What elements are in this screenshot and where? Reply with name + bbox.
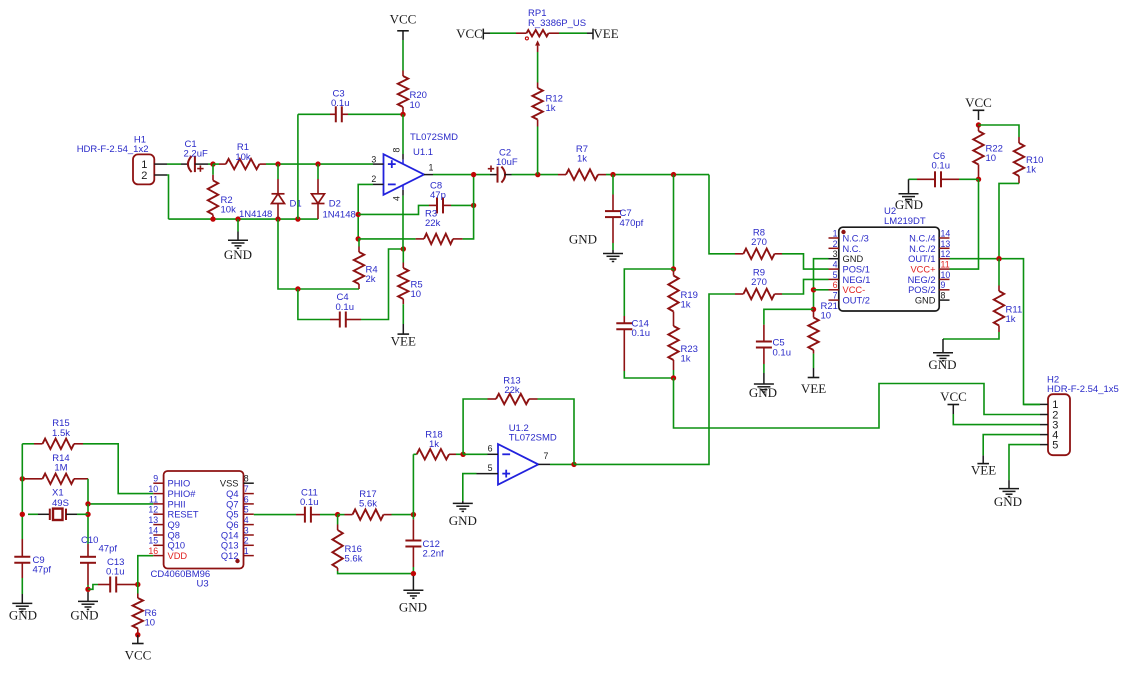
svg-text:0.1u: 0.1u xyxy=(331,98,350,109)
svg-text:11: 11 xyxy=(149,494,158,504)
junction xyxy=(295,286,300,291)
svg-text:5.6k: 5.6k xyxy=(359,499,377,510)
svg-text:N.C./4: N.C./4 xyxy=(909,233,935,243)
ground xyxy=(749,373,777,400)
svg-text:VSS: VSS xyxy=(220,479,239,489)
resistor R12 xyxy=(532,52,563,175)
svg-text:0.1u: 0.1u xyxy=(336,302,355,313)
wire xyxy=(167,163,181,165)
junction xyxy=(85,512,90,517)
svg-text:N.C.: N.C. xyxy=(843,244,862,254)
wire xyxy=(953,414,1040,425)
junction xyxy=(571,462,576,467)
wire xyxy=(673,175,675,269)
crystal X1 xyxy=(28,488,88,521)
resistor R11 xyxy=(943,259,1022,339)
svg-text:10k: 10k xyxy=(235,152,251,163)
svg-text:Q13: Q13 xyxy=(221,541,239,551)
svg-text:49S: 49S xyxy=(52,498,69,509)
svg-text:2: 2 xyxy=(141,170,147,182)
diode D2 xyxy=(312,164,356,220)
power VEE xyxy=(587,26,619,41)
svg-text:GND: GND xyxy=(994,494,1022,509)
svg-text:8: 8 xyxy=(941,291,946,301)
svg-text:9: 9 xyxy=(941,280,946,290)
svg-text:1N4148: 1N4148 xyxy=(239,209,272,220)
svg-text:OUT/1: OUT/1 xyxy=(908,254,935,264)
svg-text:VEE: VEE xyxy=(801,381,826,396)
svg-text:1N4148: 1N4148 xyxy=(323,210,356,221)
svg-text:6: 6 xyxy=(488,443,493,453)
svg-text:1k: 1k xyxy=(577,154,587,165)
capacitor C3 xyxy=(298,89,403,123)
junction xyxy=(135,582,140,587)
svg-text:POS/2: POS/2 xyxy=(908,285,935,295)
junction xyxy=(976,122,981,127)
capacitor C7 xyxy=(605,175,621,250)
svg-text:GND: GND xyxy=(569,232,597,247)
svg-text:47pf: 47pf xyxy=(99,544,118,555)
svg-text:GND: GND xyxy=(843,254,864,264)
resistor R17 xyxy=(338,489,414,520)
junction xyxy=(315,161,320,166)
resistor R10 xyxy=(979,125,1044,259)
wire xyxy=(983,435,1040,456)
svg-text:4: 4 xyxy=(392,196,402,201)
wire xyxy=(574,294,735,464)
resistor R2 xyxy=(208,164,236,219)
svg-text:Q14: Q14 xyxy=(221,530,239,540)
svg-text:GND: GND xyxy=(895,197,923,212)
svg-text:PHII: PHII xyxy=(168,499,186,509)
power VCC xyxy=(940,389,967,414)
wire xyxy=(358,184,373,239)
svg-text:Q7: Q7 xyxy=(226,499,238,509)
junction xyxy=(135,632,140,637)
svg-text:2.2uF: 2.2uF xyxy=(184,149,208,160)
svg-text:U1.1: U1.1 xyxy=(413,147,433,158)
power VCC xyxy=(965,95,992,120)
junction xyxy=(295,216,300,221)
svg-text:GND: GND xyxy=(449,513,477,528)
svg-text:Q8: Q8 xyxy=(168,530,180,540)
svg-text:0.1u: 0.1u xyxy=(106,567,125,578)
svg-text:1k: 1k xyxy=(681,299,691,310)
svg-text:2: 2 xyxy=(833,239,838,249)
svg-text:2k: 2k xyxy=(366,274,376,285)
svg-text:7: 7 xyxy=(833,291,838,301)
svg-text:OUT/2: OUT/2 xyxy=(843,296,870,306)
svg-text:16: 16 xyxy=(148,546,158,556)
capacitor C8 xyxy=(429,180,474,213)
capacitor C10 xyxy=(80,535,117,590)
ground xyxy=(70,592,98,622)
resistor R5 xyxy=(398,249,423,304)
svg-text:4: 4 xyxy=(833,259,838,269)
junction xyxy=(460,452,465,457)
junction xyxy=(275,161,280,166)
svg-text:TL072SMD: TL072SMD xyxy=(509,433,557,444)
svg-text:0.1u: 0.1u xyxy=(932,161,951,172)
ground xyxy=(994,480,1022,509)
svg-text:GND: GND xyxy=(224,247,252,262)
capacitor C9 xyxy=(14,539,51,594)
svg-text:8: 8 xyxy=(392,147,402,152)
svg-text:13: 13 xyxy=(941,239,951,249)
svg-text:GND: GND xyxy=(399,600,427,615)
junction xyxy=(210,216,215,221)
svg-text:6: 6 xyxy=(833,280,838,290)
svg-text:1: 1 xyxy=(244,546,249,556)
wire xyxy=(402,196,404,249)
wire xyxy=(266,163,373,165)
svg-text:2: 2 xyxy=(244,536,249,546)
junction xyxy=(671,172,676,177)
wire xyxy=(550,463,574,465)
svg-text:VCC: VCC xyxy=(456,26,483,41)
svg-text:4: 4 xyxy=(244,515,249,525)
svg-text:VCC: VCC xyxy=(390,12,417,27)
resistor R7 xyxy=(558,144,606,180)
power VEE xyxy=(391,304,416,348)
wire xyxy=(1009,445,1040,481)
junction xyxy=(610,172,615,177)
ground xyxy=(449,501,477,528)
junction xyxy=(356,236,361,241)
resistor R19 xyxy=(668,269,698,312)
svg-text:1k: 1k xyxy=(429,439,439,450)
resistor R3 xyxy=(358,175,473,245)
capacitor C5 xyxy=(756,309,814,373)
ground xyxy=(895,179,923,212)
svg-text:10: 10 xyxy=(145,617,156,628)
svg-text:2: 2 xyxy=(371,174,376,184)
capacitor C2 xyxy=(488,147,518,182)
svg-text:0.1u: 0.1u xyxy=(300,497,319,508)
svg-text:10: 10 xyxy=(941,270,951,280)
comparator U2 xyxy=(829,206,951,311)
svg-text:VCC+: VCC+ xyxy=(910,264,935,274)
svg-text:5.6k: 5.6k xyxy=(345,553,363,564)
wire xyxy=(358,205,429,214)
svg-text:14: 14 xyxy=(941,228,951,238)
wire xyxy=(674,378,1041,428)
svg-text:D1: D1 xyxy=(290,199,302,210)
svg-text:GND: GND xyxy=(70,607,98,622)
power VEE xyxy=(801,368,826,396)
svg-text:Q4: Q4 xyxy=(226,489,238,499)
svg-text:270: 270 xyxy=(751,237,767,248)
connector H1 xyxy=(77,134,167,184)
wire xyxy=(814,259,829,310)
wire xyxy=(278,219,359,289)
svg-text:5: 5 xyxy=(833,270,838,280)
capacitor C11 xyxy=(296,487,338,522)
wire xyxy=(1024,403,1041,405)
connector H2 xyxy=(1040,374,1119,455)
svg-text:HDR-F-2.54_1x2: HDR-F-2.54_1x2 xyxy=(77,144,149,155)
wire xyxy=(169,218,319,220)
wire xyxy=(950,179,979,269)
resistor R8 xyxy=(735,227,782,259)
svg-text:N.C./2: N.C./2 xyxy=(909,244,935,254)
capacitor C6 xyxy=(909,151,979,187)
resistor R9 xyxy=(735,268,782,300)
svg-text:VEE: VEE xyxy=(391,333,416,348)
resistor R4 xyxy=(354,239,378,289)
svg-text:C10: C10 xyxy=(81,535,98,546)
capacitor C13 xyxy=(88,557,138,593)
svg-text:RESET: RESET xyxy=(168,510,199,520)
junction xyxy=(20,476,25,481)
svg-text:NEG/1: NEG/1 xyxy=(843,275,871,285)
junction xyxy=(210,161,215,166)
svg-text:1: 1 xyxy=(833,228,838,238)
capacitor C4 xyxy=(298,249,403,328)
svg-text:LM219DT: LM219DT xyxy=(884,216,926,227)
wire xyxy=(606,174,709,176)
ground xyxy=(928,339,956,372)
svg-text:Q6: Q6 xyxy=(226,520,238,530)
wire xyxy=(512,174,559,176)
svg-text:1: 1 xyxy=(429,162,434,172)
junction xyxy=(85,587,90,592)
junction xyxy=(235,216,240,221)
svg-text:1k: 1k xyxy=(1026,164,1036,175)
svg-text:10k: 10k xyxy=(221,204,237,215)
power VEE xyxy=(971,455,996,477)
svg-text:22k: 22k xyxy=(425,218,441,229)
resistor R20 xyxy=(398,40,427,115)
resistor R21 xyxy=(808,301,838,368)
capacitor C1 xyxy=(181,139,208,172)
junction xyxy=(671,375,676,380)
wire xyxy=(21,444,23,539)
svg-text:R_3386P_US: R_3386P_US xyxy=(528,18,586,29)
wire xyxy=(87,504,89,544)
junction xyxy=(335,512,340,517)
junction xyxy=(400,112,405,117)
junction xyxy=(401,246,406,251)
svg-text:8: 8 xyxy=(244,474,249,484)
power VCC xyxy=(125,635,152,663)
svg-text:VCC: VCC xyxy=(965,95,992,110)
svg-text:10uF: 10uF xyxy=(496,157,518,168)
svg-text:GND: GND xyxy=(915,296,936,306)
junction xyxy=(411,512,416,517)
svg-text:GND: GND xyxy=(928,357,956,372)
svg-text:10: 10 xyxy=(821,311,832,322)
capacitor C12 xyxy=(405,515,444,574)
svg-text:9: 9 xyxy=(153,474,158,484)
svg-text:7: 7 xyxy=(544,451,549,461)
wire xyxy=(709,175,735,254)
svg-text:15: 15 xyxy=(148,536,158,546)
svg-text:HDR-F-2.54_1x5: HDR-F-2.54_1x5 xyxy=(1047,384,1119,395)
svg-text:Q10: Q10 xyxy=(168,541,186,551)
junction xyxy=(535,172,540,177)
wire xyxy=(463,474,477,501)
svg-text:Q12: Q12 xyxy=(221,551,239,561)
junction xyxy=(811,307,816,312)
svg-text:1k: 1k xyxy=(681,353,691,364)
counter U3 xyxy=(148,471,253,590)
resistor R14 xyxy=(22,453,153,504)
wire xyxy=(559,32,587,34)
svg-text:10: 10 xyxy=(410,100,421,111)
power VCC xyxy=(456,26,490,41)
svg-text:22k: 22k xyxy=(504,385,520,396)
wire xyxy=(463,453,487,455)
svg-text:0.1u: 0.1u xyxy=(632,328,651,339)
ground xyxy=(9,594,37,622)
junction xyxy=(356,212,361,217)
svg-text:VCC: VCC xyxy=(125,648,152,663)
svg-text:14: 14 xyxy=(148,525,158,535)
svg-text:1M: 1M xyxy=(54,463,67,474)
junction xyxy=(976,177,981,182)
svg-text:10: 10 xyxy=(986,153,997,164)
junction xyxy=(471,203,476,208)
wire xyxy=(782,254,829,269)
svg-text:VDD: VDD xyxy=(168,551,188,561)
wire xyxy=(167,175,169,219)
wire xyxy=(208,163,213,165)
svg-text:5: 5 xyxy=(488,463,493,473)
svg-text:VEE: VEE xyxy=(593,26,618,41)
svg-text:GND: GND xyxy=(749,385,777,400)
svg-text:0.1u: 0.1u xyxy=(773,347,792,358)
svg-text:PHIO#: PHIO# xyxy=(168,489,197,499)
wire xyxy=(138,556,154,585)
resistor R18 xyxy=(413,429,463,514)
svg-text:5: 5 xyxy=(244,505,249,515)
svg-text:PHIO: PHIO xyxy=(168,479,191,489)
junction xyxy=(671,266,676,271)
power VCC xyxy=(390,12,417,40)
svg-text:11: 11 xyxy=(941,259,950,269)
svg-text:12: 12 xyxy=(941,249,951,259)
svg-text:10: 10 xyxy=(148,484,158,494)
junction xyxy=(811,287,816,292)
junction xyxy=(275,216,280,221)
ground xyxy=(569,232,623,262)
svg-text:3: 3 xyxy=(371,155,376,165)
svg-text:47p: 47p xyxy=(430,190,446,201)
junction xyxy=(996,256,1001,261)
svg-text:5: 5 xyxy=(1052,439,1058,451)
svg-text:2.2nf: 2.2nf xyxy=(423,549,444,560)
wire xyxy=(297,114,299,219)
resistor R16 xyxy=(332,515,413,574)
svg-text:3: 3 xyxy=(244,525,249,535)
junction xyxy=(85,501,90,506)
resistor R22 xyxy=(973,125,1003,179)
capacitor C14 xyxy=(616,269,673,378)
potentiometer RP1 xyxy=(516,8,586,52)
svg-text:N.C./3: N.C./3 xyxy=(843,233,869,243)
svg-text:VEE: VEE xyxy=(971,463,996,478)
svg-text:Q5: Q5 xyxy=(226,510,238,520)
svg-text:13: 13 xyxy=(148,515,158,525)
diode D1 xyxy=(239,164,302,220)
svg-text:12: 12 xyxy=(148,505,158,515)
junction xyxy=(471,172,476,177)
svg-text:47pf: 47pf xyxy=(33,564,52,575)
wire xyxy=(782,279,829,294)
svg-text:270: 270 xyxy=(751,277,767,288)
wire xyxy=(490,32,516,34)
resistor R23 xyxy=(668,312,698,379)
junction xyxy=(411,571,416,576)
svg-text:470pf: 470pf xyxy=(620,218,644,229)
svg-text:GND: GND xyxy=(9,607,37,622)
svg-text:VCC: VCC xyxy=(940,389,967,404)
wire xyxy=(433,174,490,176)
op-amp U1.2 xyxy=(477,423,557,485)
ground xyxy=(224,219,252,262)
svg-text:6: 6 xyxy=(244,494,249,504)
resistor R1 xyxy=(213,142,266,169)
svg-text:7: 7 xyxy=(244,484,249,494)
junction xyxy=(20,512,25,517)
resistor R13 xyxy=(463,375,574,464)
svg-text:D2: D2 xyxy=(329,199,341,210)
svg-text:1k: 1k xyxy=(546,103,556,114)
svg-text:1.5k: 1.5k xyxy=(52,428,70,439)
svg-text:NEG/2: NEG/2 xyxy=(908,275,936,285)
svg-text:3: 3 xyxy=(833,249,838,259)
svg-text:U3: U3 xyxy=(197,579,209,590)
op-amp U1.1 xyxy=(371,114,458,201)
svg-text:Q9: Q9 xyxy=(168,520,180,530)
svg-text:1k: 1k xyxy=(1006,314,1016,325)
resistor R6 xyxy=(133,585,157,635)
ground xyxy=(399,576,427,615)
wire xyxy=(254,514,296,516)
svg-text:VCC-: VCC- xyxy=(843,285,866,295)
svg-text:10: 10 xyxy=(411,289,422,300)
resistor R15 xyxy=(22,418,153,493)
wire xyxy=(950,259,1041,405)
svg-text:TL072SMD: TL072SMD xyxy=(410,132,458,143)
wire xyxy=(814,289,829,291)
svg-text:POS/1: POS/1 xyxy=(843,264,870,274)
